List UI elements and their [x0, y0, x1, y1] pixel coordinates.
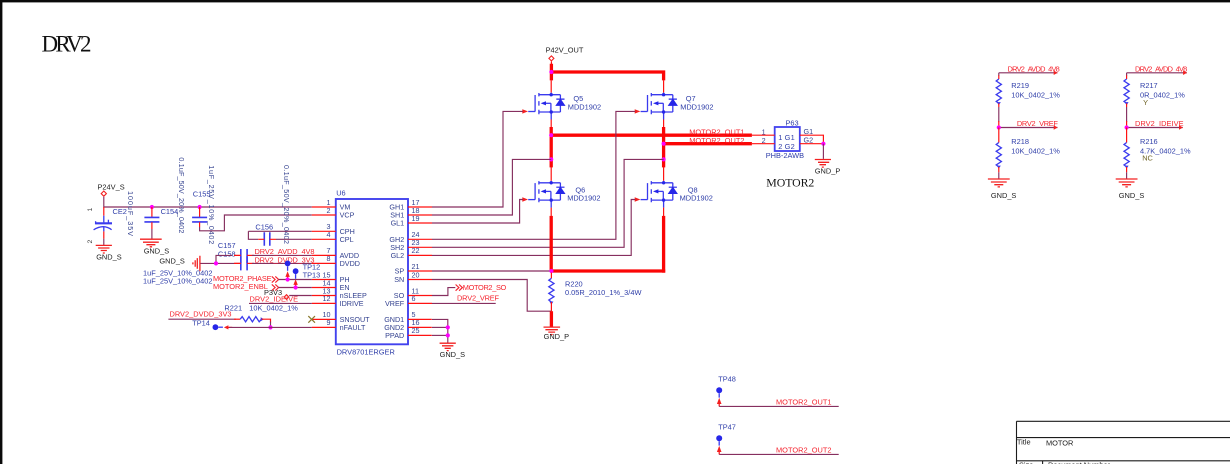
capacitor CE2 [87, 191, 135, 245]
wire GH1 [432, 111, 523, 207]
wire Q7 source lead [663, 120, 665, 129]
svg-text:4: 4 [327, 230, 331, 239]
net label DRV2_IDEIVE (R217/R216) [1127, 119, 1184, 130]
svg-text:SN: SN [394, 275, 404, 284]
test point TP47 [716, 423, 736, 455]
ground GND_S (R218) [988, 179, 1017, 200]
svg-text:10K_0402_1%: 10K_0402_1% [249, 303, 298, 312]
net label DRV2_VREF (R219/R218) [999, 119, 1059, 130]
junction PPAD [446, 333, 450, 337]
wire GND2 [432, 326, 448, 328]
svg-text:R218: R218 [1011, 137, 1029, 146]
bus Q5/Q6 column [550, 127, 553, 167]
bus Q6 source column [550, 216, 553, 271]
svg-text:GL1: GL1 [391, 219, 405, 228]
svg-text:6: 6 [412, 294, 416, 303]
bus MOTOR2_OUT1 [551, 134, 752, 137]
svg-text:100uF_35V: 100uF_35V [126, 191, 135, 236]
junction IDEIVE divider [1125, 125, 1129, 129]
junction TP13/EN [294, 285, 298, 289]
capacitors C157 C158 [143, 241, 247, 286]
test point TP13 [293, 268, 321, 287]
svg-text:DRV2_VREF: DRV2_VREF [457, 293, 499, 302]
wire CPL net [276, 238, 312, 240]
wire EN net [279, 287, 312, 289]
svg-text:10K_0402_1%: 10K_0402_1% [1011, 90, 1060, 99]
svg-text:C154: C154 [161, 207, 179, 216]
svg-text:20: 20 [412, 270, 420, 279]
svg-text:MOTOR2: MOTOR2 [766, 175, 814, 189]
U6 left pin stubs [312, 207, 336, 327]
junction R221/nFAULT [268, 325, 272, 329]
junction SH2 tap [662, 157, 666, 161]
wire P24V_S to VM bus [104, 197, 312, 207]
U6 right pin stubs [408, 207, 432, 335]
wire PH net [279, 279, 312, 281]
resistor R218 [996, 128, 1060, 179]
wire CPH net [248, 230, 311, 232]
U6 right pin numbers [412, 198, 420, 335]
svg-text:PPAD: PPAD [385, 331, 404, 340]
svg-text:nFAULT: nFAULT [340, 323, 366, 332]
wire Q5 source lead [550, 120, 552, 129]
junction G1/G2 [821, 142, 825, 146]
svg-text:22: 22 [412, 246, 420, 255]
svg-text:2: 2 [87, 240, 94, 244]
svg-text:DVDD: DVDD [340, 259, 360, 268]
svg-text:VREF: VREF [385, 299, 405, 308]
wire GH2 [432, 111, 635, 239]
wire VREF net [432, 302, 496, 304]
capacitor C155 [192, 165, 216, 244]
svg-text:25: 25 [412, 326, 420, 335]
bus R220 to GND_P [550, 311, 553, 327]
resistor R219 [996, 73, 1060, 128]
svg-text:8: 8 [327, 254, 331, 263]
svg-text:GND_S: GND_S [96, 253, 122, 262]
resistor R221 [224, 303, 298, 322]
svg-text:19: 19 [412, 214, 420, 223]
power flag P42V_OUT [546, 46, 584, 61]
svg-text:IDRIVE: IDRIVE [340, 299, 364, 308]
net label DRV2_AVDD_4V8 (R219) [999, 65, 1060, 75]
svg-text:MOTOR2_SO: MOTOR2_SO [463, 283, 507, 292]
resistor R220 [549, 273, 642, 312]
svg-text:0.1uF_50V_20%_0402: 0.1uF_50V_20%_0402 [282, 165, 291, 244]
svg-text:DRV8701ERGER: DRV8701ERGER [337, 348, 395, 357]
svg-text:MDD1902: MDD1902 [568, 102, 601, 111]
net label DRV2_AVDD_4V8 (R217) [1127, 65, 1188, 75]
junction C154 on VM bus [150, 205, 154, 209]
svg-text:GL2: GL2 [391, 251, 405, 260]
transistor Q7 MDD1902 [635, 93, 714, 120]
bus MOTOR2_OUT2 [664, 142, 752, 145]
svg-text:CE2: CE2 [113, 207, 127, 216]
svg-text:C156: C156 [255, 223, 273, 232]
svg-text:R219: R219 [1011, 81, 1029, 90]
wire C155 to VCP [200, 215, 312, 231]
svg-text:1: 1 [87, 208, 94, 212]
wire SN kelvin [432, 280, 551, 312]
svg-text:MOTOR2_OUT1: MOTOR2_OUT1 [776, 398, 832, 407]
svg-text:10K_0402_1%: 10K_0402_1% [1011, 147, 1060, 156]
svg-text:MDD1902: MDD1902 [567, 194, 600, 203]
transistor Q5 MDD1902 [522, 93, 601, 120]
test point TP14 [192, 319, 232, 331]
ground GND_P (R220) [544, 327, 570, 341]
svg-text:VCP: VCP [340, 211, 355, 220]
U6 left pin numbers [323, 198, 331, 327]
svg-text:MOTOR: MOTOR [1046, 439, 1073, 448]
wire GL1 [432, 200, 523, 224]
wire GL2 [432, 200, 635, 256]
junction OUT2 [662, 142, 666, 146]
test point TP12 [285, 261, 321, 280]
svg-text:2: 2 [327, 206, 331, 215]
ground GND_P (P53) [815, 160, 841, 176]
wire SH2 [432, 159, 664, 247]
svg-text:1 G1: 1 G1 [778, 133, 795, 142]
svg-text:P42V_OUT: P42V_OUT [546, 46, 584, 55]
capacitor C154 [144, 157, 186, 239]
svg-text:TP13: TP13 [303, 271, 321, 280]
svg-text:1uF_25V_10%_0402: 1uF_25V_10%_0402 [143, 277, 212, 286]
wire GND1 to ground [432, 319, 448, 343]
connector P53 PHB-2AWB [752, 119, 824, 160]
svg-text:GND_S: GND_S [991, 191, 1017, 200]
wire SP [432, 270, 551, 272]
svg-text:DRV2_VREF: DRV2_VREF [1017, 119, 1058, 128]
svg-text:0.1uF_50V_20%_0402: 0.1uF_50V_20%_0402 [177, 157, 186, 233]
svg-text:PHB-2AWB: PHB-2AWB [766, 151, 804, 160]
junction VREF divider [997, 125, 1001, 129]
wire P42V stem [550, 62, 552, 65]
svg-text:GND_P: GND_P [815, 166, 841, 175]
wire IDRIVE net [249, 302, 312, 304]
wire nFAULT net [229, 326, 312, 328]
wire Q6 drain lead [550, 167, 552, 181]
ground GND_S (C157/C158 sideways) [159, 256, 200, 271]
svg-text:MOTOR2_ENBL: MOTOR2_ENBL [213, 282, 268, 291]
wire PPAD [432, 334, 448, 336]
junction TP12/PH [286, 277, 290, 281]
svg-text:C158: C158 [218, 250, 236, 259]
svg-text:1uF_25V_10%_0402: 1uF_25V_10%_0402 [207, 165, 216, 244]
wire AVDD net [247, 254, 254, 256]
wire MOTOR2_OUT2 (TP47) [719, 453, 839, 455]
svg-text:MDD1902: MDD1902 [680, 194, 713, 203]
svg-text:C157: C157 [218, 241, 236, 250]
wire DVDD to R221 [168, 318, 236, 320]
svg-text:MDD1902: MDD1902 [680, 102, 713, 111]
no-connect X on SNSOUT [308, 316, 315, 323]
ground GND_S (C154) [140, 239, 169, 255]
svg-text:P24V_S: P24V_S [98, 183, 125, 192]
bus Q7/Q8 column [662, 127, 665, 167]
svg-text:R216: R216 [1140, 137, 1158, 146]
svg-text:GND_S: GND_S [1119, 191, 1145, 200]
op-amp U6 DRV8701ERGER body [336, 189, 408, 357]
svg-text:GND_S: GND_S [159, 256, 185, 265]
net entry MOTOR2_ENBL [213, 282, 279, 291]
wire Q6 source lead [550, 208, 552, 217]
wire C156 loop to CPH [248, 231, 258, 239]
svg-text:NC: NC [1142, 154, 1153, 163]
svg-text:TP47: TP47 [718, 423, 736, 432]
net entry MOTOR2_SO [432, 283, 507, 295]
U6 left pin names [340, 203, 371, 332]
svg-text:U6: U6 [336, 189, 345, 198]
junction P42V [549, 70, 553, 74]
transistor Q6 MDD1902 [522, 181, 600, 208]
wire nSLEEP net [289, 295, 312, 297]
svg-text:G2: G2 [804, 135, 814, 144]
svg-text:MOTOR2_OUT2: MOTOR2_OUT2 [689, 136, 744, 145]
ground GND_S (U6) [440, 343, 466, 359]
ground GND_S (CE2) [96, 245, 122, 261]
svg-text:R221: R221 [224, 303, 242, 312]
wire Q8 drain lead [663, 167, 665, 181]
svg-text:DRV2_IDEIVE: DRV2_IDEIVE [1135, 119, 1184, 128]
bus P42V rail [550, 64, 664, 81]
svg-text:Document Number: Document Number [1048, 461, 1111, 464]
svg-text:9: 9 [327, 318, 331, 327]
svg-text:12: 12 [323, 294, 331, 303]
wire G2 to ground [822, 144, 824, 159]
svg-text:2 G2: 2 G2 [778, 142, 795, 151]
power flag P3V3 [264, 288, 289, 299]
svg-text:MOTOR2_OUT2: MOTOR2_OUT2 [776, 446, 832, 455]
transistor Q8 MDD1902 [635, 181, 713, 208]
svg-text:Y: Y [1143, 98, 1148, 107]
svg-text:GND_P: GND_P [544, 332, 570, 341]
svg-text:Size: Size [1019, 461, 1033, 464]
wire Q7 drain lead [663, 80, 665, 92]
junction SH1 tap [549, 157, 553, 161]
svg-text:R217: R217 [1140, 81, 1158, 90]
wire Q8 source lead [663, 208, 665, 217]
wire R221 to nFAULT [270, 322, 272, 328]
resistor R217 [1124, 73, 1185, 128]
net entry MOTOR2_PHASE [213, 274, 279, 283]
svg-text:TP48: TP48 [718, 375, 736, 384]
svg-text:TP14: TP14 [192, 319, 210, 328]
svg-text:0.05R_2010_1%_3/4W: 0.05R_2010_1%_3/4W [565, 288, 641, 297]
svg-text:CPL: CPL [340, 235, 354, 244]
bus SP sense [551, 269, 665, 272]
wire SH1 [432, 159, 551, 215]
wire DVDD net [247, 262, 254, 264]
test point TP48 [716, 375, 736, 407]
ground GND_S (R216) [1116, 179, 1145, 200]
resistor R216 [1124, 128, 1191, 179]
junction OUT1 [549, 133, 553, 137]
junction C155 on VM bus [198, 205, 202, 209]
svg-text:GND_S: GND_S [440, 350, 466, 359]
svg-text:GND_S: GND_S [144, 246, 170, 255]
junction SP [549, 269, 553, 273]
svg-text:DRV2: DRV2 [42, 31, 92, 56]
junction GND2 [446, 325, 450, 329]
power flag P24V_S [98, 183, 125, 197]
capacitor C156 [255, 165, 291, 246]
svg-text:DRV2_DVDD_3V3: DRV2_DVDD_3V3 [170, 310, 232, 319]
svg-text:Title: Title [1017, 437, 1031, 446]
wire MOTOR2_OUT1 (TP48) [719, 405, 839, 407]
title block [1017, 421, 1230, 464]
wire C157/C158 common to ground [200, 255, 240, 263]
bus Q8 source column [662, 216, 665, 273]
U6 right pin names [384, 203, 405, 340]
wire Q5 drain lead [550, 80, 552, 92]
junction C157/C158 node [214, 261, 218, 265]
